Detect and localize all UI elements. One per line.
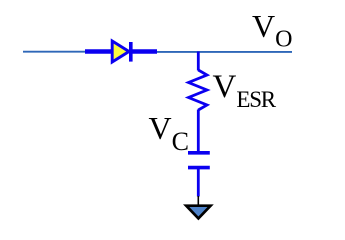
label V_O [252, 8, 292, 54]
resistor R-ESR zigzag [189, 70, 208, 110]
capacitor C bottom plate [188, 166, 210, 170]
label V_ESR [213, 69, 275, 113]
ground symbol triangle [186, 206, 210, 219]
wire: input line left thin segment [23, 51, 86, 53]
wire: resistor to capacitor [197, 110, 200, 153]
ground: black stem [197, 196, 199, 205]
diode D1 cathode bar [129, 42, 133, 62]
wire: thick cathode lead [131, 49, 157, 53]
diode D1 triangle [112, 41, 129, 62]
node: junction lead down from output wire [197, 52, 200, 71]
wire: capacitor to ground [197, 168, 200, 197]
capacitor C top plate [188, 151, 210, 155]
wire: output line right thin segment [156, 51, 292, 53]
wire: thick anode lead [85, 49, 112, 53]
label V_C [149, 110, 189, 157]
